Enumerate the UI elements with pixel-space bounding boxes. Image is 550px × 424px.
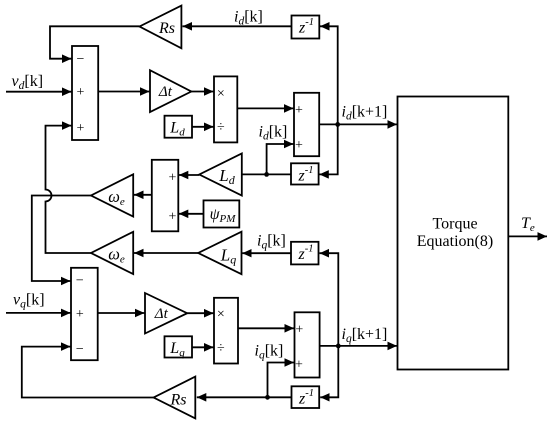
wire outsumD output to torque block	[319, 123, 397, 125]
wire z1d-top output to Rs top input	[183, 25, 292, 27]
svg-text:Δt: Δt	[154, 306, 169, 322]
svg-text:+: +	[76, 85, 84, 100]
gain triangle Rs top	[140, 6, 182, 49]
gain triangle dt-d	[150, 70, 191, 112]
svg-text:z-1: z-1	[298, 243, 314, 262]
gain box Ld	[165, 116, 193, 138]
node idk1	[335, 122, 340, 127]
svg-text:Torque: Torque	[432, 216, 477, 233]
svg-text:id[k]: id[k]	[234, 9, 263, 28]
svg-text:+: +	[295, 357, 303, 372]
svg-text:vd[k]: vd[k]	[12, 73, 44, 92]
wire omega-e-d output down to sumQ minus1	[32, 196, 91, 282]
summing block sumD	[72, 46, 98, 140]
svg-text:id[k+1]: id[k+1]	[342, 104, 388, 123]
svg-text:z-1: z-1	[298, 388, 314, 407]
svg-text:vq[k]: vq[k]	[13, 291, 45, 310]
svg-text:Lq: Lq	[220, 246, 236, 267]
svg-text:Te: Te	[521, 215, 535, 234]
wire sumD output to dt-d	[98, 91, 149, 93]
svg-text:+: +	[168, 170, 176, 185]
wire Ld triangle output to sumM plus1	[179, 174, 200, 176]
gain triangle dt-q	[145, 293, 187, 334]
gain triangle omega-e-q	[91, 232, 133, 274]
wire sumQ output to dt-q	[98, 312, 145, 314]
torque equation block	[398, 97, 509, 370]
wire dt-d output to muldiv-d times	[191, 91, 213, 93]
summing block sumQ	[71, 268, 98, 360]
svg-text:Ld: Ld	[169, 120, 185, 139]
gain triangle Lq	[198, 232, 241, 275]
wire Lq-box output to muldiv-q divide	[192, 346, 214, 348]
svg-text:iq[k+1]: iq[k+1]	[342, 326, 388, 345]
wire Rs top output down to sumD minus input	[50, 26, 140, 58]
delay block z1q-up	[291, 242, 319, 265]
svg-text:÷: ÷	[217, 341, 225, 356]
gain box Lq	[165, 336, 193, 357]
svg-text:id[k]: id[k]	[259, 124, 288, 143]
wire node idk1 down to z1d-low input	[319, 124, 337, 174]
svg-text:Δt: Δt	[158, 84, 173, 100]
wire node idk up to outsumD plus2	[267, 144, 294, 174]
summing block outsumQ	[295, 312, 320, 377]
svg-text:−: −	[76, 52, 84, 67]
wire Rs bottom output up to sumQ minus2	[22, 347, 154, 398]
svg-text:Ld: Ld	[218, 166, 235, 187]
wire vq input	[6, 312, 71, 314]
gain triangle Rs bottom	[154, 377, 196, 419]
svg-text:÷: ÷	[217, 120, 225, 135]
svg-text:−: −	[76, 274, 84, 289]
wire psiPM output to sumM plus2	[179, 213, 204, 215]
svg-text:Rs: Rs	[158, 20, 175, 37]
svg-text:ωe: ωe	[108, 245, 125, 266]
svg-text:Lq: Lq	[169, 340, 185, 359]
delay block z1d-top	[292, 16, 320, 39]
svg-text:+: +	[76, 121, 84, 136]
gain box psiPM	[204, 200, 240, 227]
gain triangle omega-e-d	[91, 174, 133, 216]
svg-text:×: ×	[217, 87, 225, 102]
svg-text:z-1: z-1	[298, 17, 314, 36]
svg-text:Equation(8): Equation(8)	[417, 233, 493, 250]
svg-text:×: ×	[217, 307, 225, 322]
svg-text:iq[k]: iq[k]	[255, 342, 284, 361]
node iqk q	[265, 395, 270, 400]
wire z1q-low output to node then Rs bottom input	[197, 396, 292, 398]
svg-text:z-1: z-1	[298, 165, 314, 184]
svg-text:+: +	[76, 307, 84, 322]
wire node iqk1 down to z1q-low input	[320, 346, 338, 397]
delay block z1q-low	[292, 386, 320, 408]
wire muldiv-d output to outsumD plus1	[237, 107, 293, 109]
wire muldiv-q output to outsumQ plus1	[238, 327, 294, 329]
wire vd input	[6, 91, 72, 93]
svg-text:ωe: ωe	[108, 187, 125, 208]
summing block outsumD	[294, 93, 319, 156]
wire outsumQ output to torque block	[320, 345, 397, 347]
svg-text:ψPM: ψPM	[210, 206, 237, 225]
svg-text:iq[k]: iq[k]	[257, 232, 286, 251]
wire dt-q output to muldiv-q times	[187, 312, 213, 314]
svg-text:+: +	[168, 209, 176, 224]
summing block sumM	[152, 160, 179, 232]
muldiv block q	[214, 298, 238, 364]
wire node iqk up to outsumQ plus2	[268, 363, 295, 398]
wire node iqk1 up to z1q-up input	[320, 253, 339, 346]
svg-text:−: −	[76, 342, 84, 357]
gain triangle Ld	[199, 154, 242, 196]
wire z1d-low output to node then Ld triangle	[243, 173, 292, 175]
wire z1q-up output to Lq triangle	[242, 252, 291, 254]
wire Te output	[508, 235, 547, 237]
wire node idk1 up to z1d-top input	[320, 26, 338, 124]
node iqk1	[336, 344, 341, 349]
svg-text:+: +	[295, 322, 303, 337]
wire Lq triangle output to omega-e-q	[134, 252, 198, 254]
wire omega-e-q output up with hop to sumD plus3 input	[46, 126, 92, 253]
wire sumM output to omega-e-d	[134, 194, 152, 196]
svg-text:+: +	[295, 138, 303, 153]
delay block z1d-low	[291, 163, 319, 184]
svg-text:Rs: Rs	[170, 392, 187, 409]
svg-text:+: +	[295, 103, 303, 118]
muldiv block d	[214, 76, 237, 142]
wire Ld-box output to muldiv-d divide	[192, 126, 214, 128]
node idk d	[264, 172, 269, 177]
